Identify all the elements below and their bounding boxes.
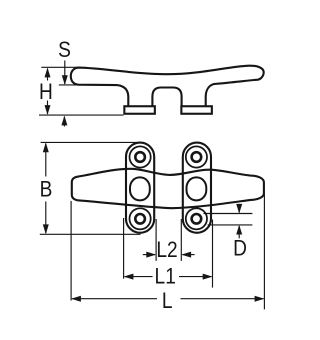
svg-text:L2: L2 (156, 238, 177, 263)
oval hole right (187, 177, 207, 200)
oval hole left (130, 177, 150, 200)
top view: cleat body outline (72, 169, 264, 208)
small up arrow at baseline (63, 117, 65, 127)
dimension B line with arrows (45, 144, 47, 234)
svg-text:D: D (233, 236, 247, 261)
svg-text:L1: L1 (155, 264, 176, 289)
D upper extension line (204, 213, 253, 215)
top view: right plate (183, 143, 211, 233)
L1 right extension line (212, 220, 214, 288)
D lower arrow (238, 226, 240, 238)
bolt hole bottom-left (130, 208, 151, 229)
L2 left arrow (143, 254, 155, 256)
bolt hole bottom-right (186, 208, 207, 229)
D upper arrow (238, 204, 240, 213)
svg-text:L: L (162, 289, 173, 314)
L2 right extension line (180, 219, 182, 261)
bolt hole top-right (186, 146, 207, 167)
dimension L line with arrows (72, 298, 263, 300)
dimension S arrow (64, 61, 66, 85)
dimension H line with arrows (47, 69, 49, 115)
extension line: top of horn (S/H top) (41, 66, 77, 68)
B bottom extension line (40, 233, 141, 235)
side view: cleat silhouette outline (71, 66, 264, 106)
L2 right arrow (182, 254, 194, 256)
svg-text:B: B (40, 177, 53, 202)
top view: left plate (126, 143, 154, 233)
L left extension line (70, 201, 72, 301)
L1 left extension line (123, 218, 125, 279)
B top extension line (41, 141, 138, 143)
bolt hole top-left (130, 146, 151, 167)
side view: left foot pad (124, 106, 155, 114)
dimension L1 line with arrows (125, 276, 212, 278)
side view: right foot pad (181, 106, 212, 114)
extension line: bottom of horn tip (S bottom) (59, 84, 80, 86)
svg-text:S: S (58, 38, 71, 63)
side view: center arch between posts (152, 88, 181, 106)
L2 left extension line (155, 219, 157, 261)
extension line: baseline (H bottom) (39, 114, 124, 116)
svg-text:H: H (39, 80, 53, 105)
L right extension line (263, 194, 265, 310)
D lower extension line (208, 224, 253, 226)
